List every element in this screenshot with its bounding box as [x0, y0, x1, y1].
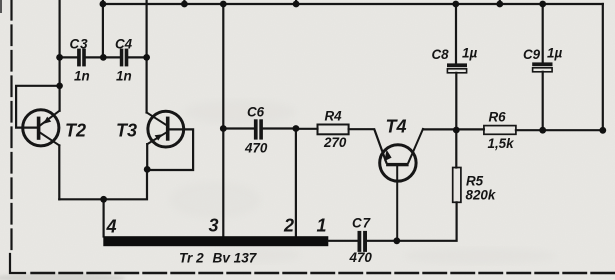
wire: rail drop to C3/C4 node — [102, 4, 104, 57]
wire: T2 collector down — [58, 145, 60, 199]
node rail x500 — [496, 1, 503, 8]
svg-text:470: 470 — [244, 141, 268, 156]
svg-text:C7: C7 — [352, 216, 371, 231]
wire: C6 row — [223, 127, 296, 129]
svg-text:1µ: 1µ — [462, 46, 477, 61]
dashed border bottom — [32, 272, 615, 274]
capacitor C4 — [120, 49, 129, 67]
capacitor C6 — [254, 119, 263, 139]
wire: C7 to base junction — [367, 240, 397, 242]
wire: top supply rail — [103, 3, 603, 5]
node C8/R5 — [453, 127, 460, 134]
capacitor C8 top plate — [447, 63, 467, 67]
svg-text:4: 4 — [106, 217, 117, 237]
transistor T2 collector diagonal — [40, 133, 59, 146]
capacitor C3 — [77, 49, 86, 67]
resistor R6 — [484, 126, 516, 135]
svg-text:C6: C6 — [247, 105, 265, 120]
svg-text:R6: R6 — [489, 110, 507, 125]
svg-text:T4: T4 — [386, 117, 407, 137]
transistor T3 base diagonal from C4 line — [147, 113, 166, 125]
node C6 left — [220, 125, 227, 132]
svg-text:820k: 820k — [466, 188, 496, 203]
wire: drop to transformer terminal 4 — [102, 199, 104, 236]
node C9 bottom — [539, 127, 546, 134]
transistor T3 emitter arrow — [155, 134, 163, 140]
wire: rail stub up at x=102.9 — [102, 0, 104, 4]
wire: C6 junction to R4 — [296, 128, 318, 130]
node rail x184 — [181, 1, 188, 8]
node terminal4 tap — [100, 196, 107, 203]
node rail x223 — [220, 1, 227, 8]
transistor T2 emitter arrow — [43, 117, 51, 124]
wire: R6 to right edge — [516, 129, 603, 131]
svg-text:3: 3 — [209, 216, 219, 236]
transistor T4 base bar — [386, 163, 409, 166]
capacitor C9 top plate — [532, 62, 552, 66]
wire: terminal 1 to C7 — [328, 240, 357, 242]
transformer winding Tr2 thick bar — [103, 236, 328, 246]
transistor T3 base bar — [166, 117, 170, 141]
svg-text:1µ: 1µ — [547, 46, 562, 61]
resistor R5 — [453, 168, 461, 203]
wire: rail drop to transformer terminal 3 — [222, 4, 224, 237]
svg-text:470: 470 — [349, 250, 373, 265]
wire: capacitor row C3-C4 — [60, 56, 147, 58]
svg-text:T3: T3 — [116, 120, 137, 140]
wire: C8 down through junction to R5 — [455, 73, 457, 168]
node C3 left — [56, 54, 63, 61]
node C6 right — [293, 125, 300, 132]
svg-text:Tr 2: Tr 2 — [179, 251, 204, 266]
svg-text:2: 2 — [283, 216, 294, 236]
transistor T2 base bar — [37, 117, 41, 140]
dashed border left — [10, 0, 12, 251]
node rail x103 — [100, 1, 107, 8]
wire: T3 emitter down to junction — [146, 144, 148, 169]
dashed border corner — [10, 254, 25, 273]
wire: drop to transformer terminal 2 — [295, 129, 297, 237]
resistor R4 — [318, 125, 349, 135]
svg-text:C9: C9 — [523, 47, 541, 62]
node T3 emitter junction — [144, 166, 151, 173]
wire: rail stub up at x=296.1 — [295, 0, 297, 4]
node rail x456 — [452, 1, 459, 8]
node right corner — [599, 127, 606, 134]
wire: C9 down to R6 wire — [542, 72, 544, 130]
wire: T4 collector to R6 — [423, 128, 484, 130]
transistor T2 emitter diagonal — [40, 111, 59, 125]
wire: rail drop to C9 — [542, 4, 544, 62]
node C3/C4 mid — [100, 54, 107, 61]
node C7/T4 base — [393, 237, 400, 244]
svg-text:T2: T2 — [65, 120, 86, 140]
svg-text:270: 270 — [323, 135, 347, 150]
wire: C4 right vertical to T3 — [146, 0, 148, 113]
wire: R5 bottom to C7 junction — [397, 202, 457, 241]
capacitor C9 bottom plate — [533, 68, 553, 72]
transistor T4 circle — [380, 145, 416, 181]
wire: C3 left vertical / T2 emitter line — [58, 0, 60, 111]
svg-text:C8: C8 — [432, 47, 450, 62]
svg-text:1n: 1n — [116, 68, 132, 83]
transistor T3 emitter diagonal — [147, 133, 166, 144]
wire: rail stub up at x=184.4 — [183, 0, 185, 4]
node T2 base loop — [56, 83, 63, 90]
svg-text:Bv 137: Bv 137 — [213, 251, 258, 266]
transistor T3 circle — [148, 111, 184, 147]
node C4 right — [143, 54, 150, 61]
svg-text:1n: 1n — [74, 68, 90, 83]
wire: rail stub up at x=499.8 — [499, 0, 501, 4]
capacitor C8 bottom plate — [447, 69, 466, 73]
wire: T3 right lead loop — [147, 129, 193, 170]
transistor T4 collector diagonal — [408, 129, 423, 163]
svg-text:C4: C4 — [115, 37, 133, 52]
svg-text:R5: R5 — [466, 174, 484, 189]
svg-text:1: 1 — [317, 216, 327, 236]
capacitor C7 — [358, 231, 368, 252]
svg-text:R4: R4 — [325, 109, 343, 124]
node rail x543 — [539, 1, 546, 8]
wire: rail drop to C8 — [455, 4, 457, 63]
wire: R4 to T4 emitter — [349, 129, 387, 162]
wire: T4 base down — [396, 166, 398, 241]
svg-text:1,5k: 1,5k — [488, 136, 515, 151]
svg-text:C3: C3 — [70, 37, 89, 52]
transistor T4 emitter arrow — [384, 150, 391, 161]
wire: right edge drop from rail — [602, 4, 604, 130]
transistor T2 base loop wire — [16, 86, 60, 128]
transistor T2 circle — [23, 110, 59, 146]
node rail x296 — [293, 1, 300, 8]
wire: junction down-step to T2 collector wire — [59, 169, 147, 199]
